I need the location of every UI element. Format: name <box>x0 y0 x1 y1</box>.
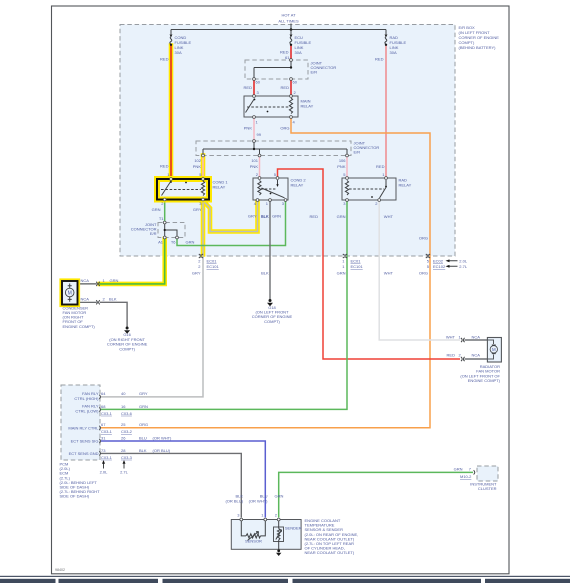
svg-text:BLK: BLK <box>109 297 117 302</box>
svg-text:SENDER: SENDER <box>285 526 302 531</box>
svg-text:NCA: NCA <box>472 335 481 340</box>
svg-text:(OR WHT): (OR WHT) <box>249 499 269 504</box>
svg-text:60: 60 <box>293 80 298 85</box>
svg-text:PNK: PNK <box>250 164 259 169</box>
svg-text:CTRL (HIGH): CTRL (HIGH) <box>74 396 99 401</box>
highlight: COND fusible link red wire <box>169 46 174 178</box>
svg-text:GRN: GRN <box>186 240 195 245</box>
svg-text:(OR BLU): (OR BLU) <box>225 499 243 504</box>
svg-text:SENSOR: SENSOR <box>245 539 262 544</box>
wire: PNK JC2 pin102 to COND1 pin5 <box>202 157 204 178</box>
svg-text:M10-2: M10-2 <box>460 474 472 479</box>
PCM 2.0L / 2.7L arrows <box>104 463 125 469</box>
condenser fan inline connectors <box>96 282 100 305</box>
svg-text:ORG: ORG <box>419 271 428 276</box>
wire: hot bus (black) <box>171 29 386 31</box>
svg-text:GRN: GRN <box>152 207 161 212</box>
instrument cluster inline connector <box>474 470 475 474</box>
svg-text:GRY: GRY <box>139 391 148 396</box>
svg-text:RED: RED <box>280 50 289 55</box>
svg-text:NCA: NCA <box>81 278 90 283</box>
svg-text:GRN: GRN <box>139 404 148 409</box>
svg-text:99: 99 <box>257 132 262 137</box>
wire: BLK ECT SENS GND from PCM to sensor pin 3 <box>101 453 241 517</box>
svg-text:GRY: GRY <box>248 214 257 219</box>
svg-text:106: 106 <box>339 158 346 163</box>
svg-text:31: 31 <box>101 435 106 440</box>
COND1 relay internals <box>162 181 172 196</box>
svg-text:68: 68 <box>101 404 106 409</box>
page border frame <box>52 6 510 574</box>
COND2 relay internals <box>258 181 261 196</box>
svg-text:26: 26 <box>121 435 126 440</box>
svg-text:ECT SENS SIG: ECT SENS SIG <box>71 439 99 444</box>
svg-text:RED: RED <box>376 164 385 169</box>
PCM pin brackets <box>99 395 100 456</box>
svg-text:WHT: WHT <box>384 214 394 219</box>
SENDER symbol (variable resistor in box) <box>274 527 284 542</box>
svg-text:25: 25 <box>121 422 126 427</box>
COND fusible link symbol <box>170 34 173 37</box>
svg-text:GRN: GRN <box>272 214 281 219</box>
svg-text:73: 73 <box>101 448 106 453</box>
svg-text:E/R: E/R <box>354 150 361 155</box>
svg-text:ORG: ORG <box>280 126 289 131</box>
wire: BLK COND2 pin1 to ground G18 <box>269 202 271 300</box>
svg-text:ORG: ORG <box>139 422 148 427</box>
svg-text:PNK: PNK <box>337 164 346 169</box>
svg-text:2.7L: 2.7L <box>459 264 468 269</box>
svg-text:BLK: BLK <box>139 448 147 453</box>
svg-text:2.0L: 2.0L <box>100 470 109 475</box>
COND 2 RELAY box <box>253 178 288 200</box>
wire: NCA stubs radiator fan motor <box>465 340 494 344</box>
wire: BLK condenser fan motor pin2 to ground G16 <box>100 302 127 327</box>
svg-text:RED: RED <box>447 352 456 357</box>
svg-text:RED: RED <box>310 214 319 219</box>
wire: RED COND2 pin5 to radiator fan motor RED 2 <box>278 169 461 359</box>
svg-text:RELAY: RELAY <box>399 183 412 188</box>
svg-text:98402: 98402 <box>55 568 65 572</box>
node: bus junction dot <box>290 28 293 31</box>
condenser fan motor symbol <box>65 288 74 297</box>
sensor ground <box>277 549 280 552</box>
JOINT CONNECTOR E/R no.3 (small, dashed box) <box>158 223 185 238</box>
radiator fan inline connectors <box>461 338 465 361</box>
wire: GRN JC3 pin T6 right and up to COND2 pin3 <box>177 202 286 246</box>
wire: RED (salmon) from RAD fusible link to RAD relay pin 1 <box>385 45 387 177</box>
wire: NCA stubs condenser fan motor <box>80 283 97 285</box>
svg-text:(OR BLU): (OR BLU) <box>153 448 171 453</box>
svg-text:GRN: GRN <box>275 494 284 499</box>
svg-text:GRN: GRN <box>110 278 119 283</box>
wire: WHT RAD relay pin2 to radiator fan motor WHT 1 <box>379 202 460 341</box>
footer table header band <box>0 579 56 583</box>
svg-text:MAIN RLY CTRL: MAIN RLY CTRL <box>68 425 99 430</box>
radiator fan motor box <box>487 338 501 363</box>
svg-text:(BEHIND BATTERY): (BEHIND BATTERY) <box>459 45 497 50</box>
svg-text:C03-1: C03-1 <box>101 455 113 460</box>
svg-text:HOT AT: HOT AT <box>281 13 296 18</box>
wire: GRY splice branch to COND2 pin4 <box>203 201 258 232</box>
svg-text:2.0L: 2.0L <box>459 259 468 264</box>
ECU fusible link symbol <box>290 34 293 37</box>
svg-text:101: 101 <box>251 158 258 163</box>
svg-text:GRY: GRY <box>192 271 201 276</box>
wire: GRN JC3 pin A1 down-left to condenser fan motor pin 1 <box>100 239 165 284</box>
svg-text:ALL TIMES: ALL TIMES <box>278 19 299 24</box>
JOINT CONNECTOR E/R no.1 (top, dashed box) <box>245 60 308 79</box>
svg-text:EC101: EC101 <box>351 264 364 269</box>
svg-text:COMPT): COMPT) <box>119 346 135 351</box>
RAD RELAY box <box>342 178 396 200</box>
svg-text:BLK: BLK <box>261 271 269 276</box>
svg-text:ENGINE COMPT): ENGINE COMPT) <box>63 324 96 329</box>
svg-text:ECT SENS GND: ECT SENS GND <box>69 451 99 456</box>
wire: PNK main relay pin1 to JC2 pin 99 <box>253 119 255 140</box>
svg-text:16: 16 <box>121 404 126 409</box>
MAIN relay internals: switch blade, contacts, dashed link, coil <box>246 99 255 113</box>
ground G18 symbol <box>269 299 272 302</box>
svg-text:M: M <box>492 347 496 352</box>
svg-text:BLU: BLU <box>139 435 147 440</box>
svg-text:(OR WHT): (OR WHT) <box>153 435 173 440</box>
svg-text:30A: 30A <box>390 50 397 55</box>
svg-text:EC102: EC102 <box>433 264 446 269</box>
wire: RED from ECU fusible link to JC1 pin 61 <box>290 45 292 59</box>
svg-text:RELAY: RELAY <box>291 183 304 188</box>
svg-text:T6: T6 <box>171 240 176 245</box>
RAD fusible link symbol <box>385 34 388 37</box>
svg-text:RELAY: RELAY <box>213 185 226 190</box>
svg-text:BLK: BLK <box>261 214 269 219</box>
MAIN RELAY box <box>244 96 298 117</box>
inline connectors at E/R box bottom edge (EC01/EC101 gray, EC01/EC101 green, EC02/EC102 orange) <box>199 254 430 258</box>
svg-text:EC02: EC02 <box>433 259 444 264</box>
wire: PNK JC2 pin101 to COND2 pin2 <box>259 157 261 177</box>
svg-text:RED: RED <box>160 57 169 62</box>
svg-text:PNK: PNK <box>193 164 202 169</box>
svg-text:60: 60 <box>256 80 261 85</box>
svg-text:40: 40 <box>121 391 126 396</box>
wire: RAD fusible link lead <box>385 30 387 35</box>
svg-text:SIDE OF DASH): SIDE OF DASH) <box>60 494 90 499</box>
svg-text:CTRL (LOW): CTRL (LOW) <box>75 409 99 414</box>
instrument cluster box <box>477 466 498 481</box>
svg-text:RED: RED <box>160 164 169 169</box>
svg-text:EC01: EC01 <box>351 259 362 264</box>
svg-text:COMPT): COMPT) <box>264 319 280 324</box>
svg-text:EC101: EC101 <box>207 264 220 269</box>
svg-text:T1: T1 <box>159 216 164 221</box>
svg-text:C03-2: C03-2 <box>121 429 133 434</box>
svg-text:GRY: GRY <box>193 207 202 212</box>
svg-text:RED: RED <box>244 85 253 90</box>
svg-text:RELAY: RELAY <box>301 104 314 109</box>
highlight: GRY wire COND1 pin3 down to EC01 connector <box>201 201 206 255</box>
highlight: GRY branch to COND2 pin 4 <box>203 201 258 232</box>
2.0L / 2.7L arrows at EC02 <box>448 261 458 267</box>
wire: ORG main relay pin4 right and down to PCM MAIN RLY CTRL <box>101 119 430 428</box>
svg-text:C03-6: C03-6 <box>121 411 133 416</box>
RAD relay internals <box>345 181 348 196</box>
thermistor SENSOR symbol <box>246 534 261 538</box>
wire: GRN RAD relay pin3 to PCM FAN RLY CTRL (LOW) <box>101 202 347 410</box>
svg-text:ORG: ORG <box>419 236 428 241</box>
svg-text:WHT: WHT <box>446 335 456 340</box>
svg-text:61: 61 <box>285 55 290 60</box>
wire: BLU ECT SENS SIG from PCM to sensor pin 1 <box>101 441 265 518</box>
JOINT CONNECTOR E/R no.2 (middle, dashed box) <box>196 141 351 156</box>
svg-text:GRN: GRN <box>337 214 346 219</box>
svg-text:30A: 30A <box>175 50 182 55</box>
E/R BOX (engine room box, light blue, dashed) <box>120 25 455 257</box>
svg-text:C03-3: C03-3 <box>121 455 133 460</box>
svg-text:NEAR COOLANT OUTLET): NEAR COOLANT OUTLET) <box>305 550 355 555</box>
wire: COND fusible link lead (black) <box>170 30 172 35</box>
footer divider line <box>0 576 570 577</box>
svg-text:WHT: WHT <box>384 271 394 276</box>
sensor pins <box>240 518 243 521</box>
svg-text:GRN: GRN <box>337 271 346 276</box>
PCM box <box>61 385 100 460</box>
highlight: GRN wire JC3 pin A1 to condenser fan motor <box>100 239 165 284</box>
svg-text:102: 102 <box>194 158 201 163</box>
highlight: PNK wire JC2 to COND1 relay pin 5 <box>201 156 206 178</box>
wire: GRY COND1 pin3 down to PCM FAN RLY CTRL (HIGH) <box>101 201 203 397</box>
svg-text:E/R: E/R <box>150 231 157 236</box>
ECT sensor box <box>231 520 301 550</box>
wire: ECU fusible link lead <box>290 30 292 35</box>
svg-text:64: 64 <box>101 391 106 396</box>
svg-text:28: 28 <box>121 448 126 453</box>
svg-text:C03-1: C03-1 <box>101 429 113 434</box>
wire: RED from COND fusible link to COND1 relay pin 1 <box>170 45 172 178</box>
svg-text:GRN: GRN <box>454 467 463 472</box>
COND 1 RELAY box (highlighted) <box>157 179 209 200</box>
svg-text:A1: A1 <box>158 240 164 245</box>
svg-text:RED: RED <box>281 85 290 90</box>
svg-text:RED: RED <box>375 57 384 62</box>
svg-text:NCA: NCA <box>472 352 481 357</box>
svg-text:C03-1: C03-1 <box>101 411 113 416</box>
wire: PNK JC2 pin106 to RAD relay pin5 <box>346 157 348 177</box>
wire: GRN sender to instrument cluster <box>279 472 473 517</box>
svg-text:67: 67 <box>101 422 106 427</box>
svg-text:2.7L: 2.7L <box>120 470 129 475</box>
svg-text:CLUSTER: CLUSTER <box>478 486 497 491</box>
ECT sensor internals <box>241 520 265 536</box>
svg-text:NCA: NCA <box>81 297 90 302</box>
svg-text:ENGINE COMPT): ENGINE COMPT) <box>468 378 501 383</box>
condenser fan motor (highlighted box) <box>62 281 78 305</box>
svg-text:E/R: E/R <box>311 70 318 75</box>
ground G16 symbol <box>126 327 129 330</box>
svg-text:30A: 30A <box>295 50 302 55</box>
wire: GRN COND1 pin2 to JC3 pin T1 <box>164 201 166 221</box>
svg-text:M: M <box>68 291 72 297</box>
svg-text:PNK: PNK <box>244 126 253 131</box>
wire: RED stubs JC1 to MAIN relay <box>253 81 255 95</box>
svg-text:EC01: EC01 <box>207 259 218 264</box>
